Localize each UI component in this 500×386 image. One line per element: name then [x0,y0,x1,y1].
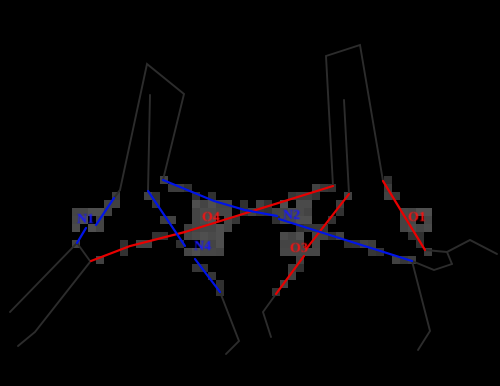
svg-text:O1: O1 [408,210,426,225]
svg-text:N2: N2 [283,208,300,223]
svg-text:O3: O3 [290,241,308,256]
svg-text:N4: N4 [194,239,211,254]
svg-text:O4: O4 [202,210,220,225]
svg-text:N1: N1 [77,212,94,227]
